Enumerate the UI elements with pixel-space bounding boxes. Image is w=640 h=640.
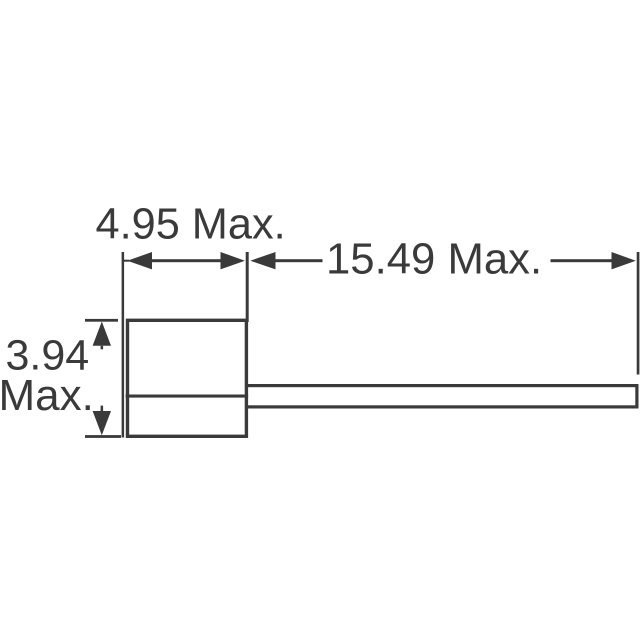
dimension line 15.49 with arrowheads (250, 252, 636, 269)
extension tick bottom (3.94 dim) (85, 435, 121, 438)
extension tick top (3.94 dim) (85, 319, 118, 322)
body divider line (126, 395, 249, 398)
extension line right of body (4.95 / 15.49 dim) (246, 252, 249, 322)
extension line far right at lead end (15.49 dim) (637, 252, 640, 375)
svg-text:Max.: Max. (0, 371, 94, 420)
vertical arrow up (3.94 dim) (93, 322, 111, 350)
svg-text:15.49 Max.: 15.49 Max. (326, 234, 542, 283)
svg-text:4.95 Max.: 4.95 Max. (96, 200, 286, 248)
component body outline (128, 320, 247, 436)
lead wire (246, 386, 637, 407)
vertical arrow down (3.94 dim) (93, 406, 111, 436)
dimension line 4.95 with arrowheads (123, 252, 245, 269)
extension line left of body (4.95 dim) (122, 252, 125, 438)
